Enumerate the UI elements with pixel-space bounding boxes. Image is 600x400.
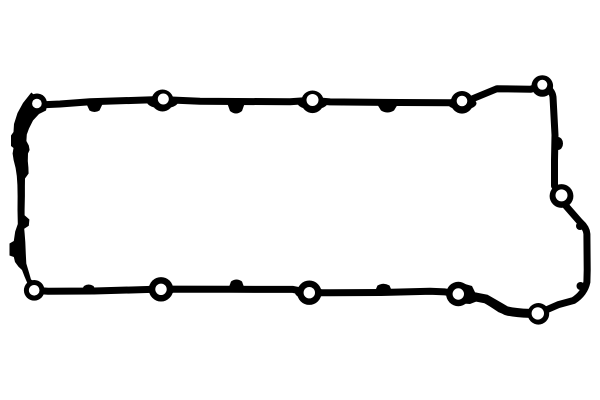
bolt hole top-right (white) xyxy=(537,80,547,90)
bolt hole bottom-left (white) xyxy=(29,285,40,296)
bolt hole boss top 2 xyxy=(301,91,324,114)
wire: gasket band centerline (top, right, bottom) xyxy=(34,85,587,313)
bolt hole boss top-right corner xyxy=(532,75,554,97)
top inner tab 1 (x~94) xyxy=(86,103,103,112)
bolt hole bottom-right (white) xyxy=(532,307,544,319)
bolt hole boss top 3 xyxy=(451,91,474,114)
bottom inner tab 2 (x~236) xyxy=(227,280,246,293)
bolt hole bottom 1 (white) xyxy=(155,284,166,295)
bolt hole boss bottom-left xyxy=(24,280,45,301)
top inner tab 3 (x~387) xyxy=(377,104,398,113)
right inner nub (y~225) xyxy=(576,222,584,230)
top inner tab 2 (x~236) xyxy=(228,104,245,114)
right inner nub (y~286) xyxy=(577,282,585,290)
bolt hole top 3 (white) xyxy=(457,96,468,107)
bolt hole bottom 2 (white) xyxy=(304,287,315,298)
bolt hole boss bottom 3 with tail xyxy=(446,282,470,306)
bolt hole top 2 (white) xyxy=(307,94,319,106)
bolt hole boss bottom 1 xyxy=(149,277,173,301)
bolt hole boss top 1 xyxy=(152,90,174,112)
right outer tab (y~143) xyxy=(553,137,563,150)
bolt hole right side (white) xyxy=(556,189,568,201)
bolt hole boss bottom 2 xyxy=(297,281,321,305)
bolt hole boss right side xyxy=(550,184,574,208)
wire: left band (filled wedge with bulges) xyxy=(10,93,48,289)
bolt hole top-left (white) xyxy=(32,99,42,109)
bolt hole boss bottom-right xyxy=(528,303,550,325)
wire: connector B3 to bottom-right hole (thick overlay) xyxy=(468,296,530,314)
bolt hole boss top-left xyxy=(27,94,47,114)
bolt hole bottom 3 (white) xyxy=(453,288,464,299)
bottom inner tab 1 (x~88) xyxy=(80,285,97,293)
bolt hole top 1 (white) xyxy=(158,94,169,105)
bottom inner tab 3 (x~383) xyxy=(374,284,393,294)
